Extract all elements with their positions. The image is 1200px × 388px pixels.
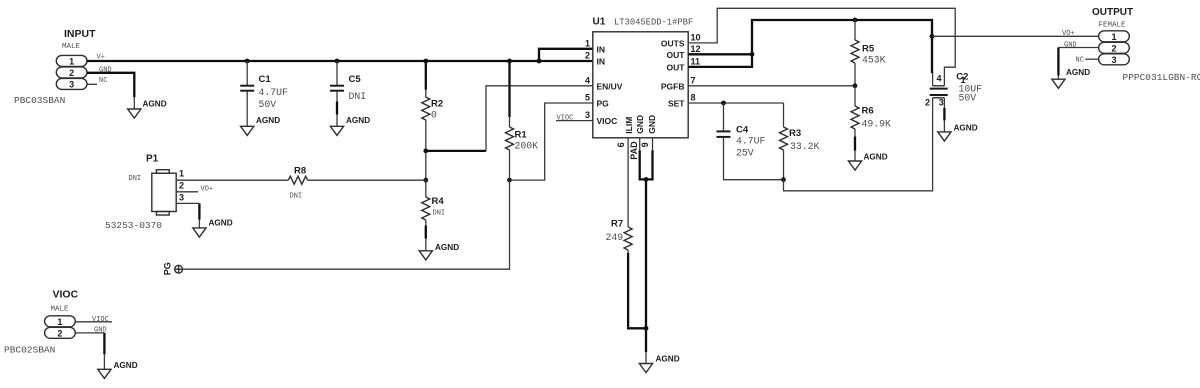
svg-text:AGND: AGND <box>256 116 280 125</box>
svg-text:C1: C1 <box>259 74 272 85</box>
net label GND <box>99 67 112 75</box>
svg-text:4.7UF: 4.7UF <box>259 87 289 98</box>
ground AGND input <box>128 100 167 119</box>
node junction R1 bottom / PG <box>507 178 512 183</box>
connector INPUT title <box>62 28 96 51</box>
svg-text:PGFB: PGFB <box>661 81 685 91</box>
resistor R6 <box>851 86 891 161</box>
svg-text:2: 2 <box>179 181 184 191</box>
connector VIOC title <box>51 289 79 314</box>
wire VO+ to output <box>932 30 1099 38</box>
svg-text:3: 3 <box>69 79 74 89</box>
connector VIOC pin boxes <box>45 316 76 339</box>
svg-text:VO+: VO+ <box>1062 30 1075 38</box>
wire OUTPUT NC stub <box>1076 56 1099 64</box>
svg-text:OUT: OUT <box>667 50 686 60</box>
svg-text:R8: R8 <box>294 166 306 177</box>
svg-text:R5: R5 <box>862 44 875 55</box>
svg-text:VIOC: VIOC <box>92 316 109 324</box>
ground AGND U1 <box>639 355 679 373</box>
svg-text:VIOC: VIOC <box>557 115 574 123</box>
svg-text:33.2K: 33.2K <box>790 141 820 152</box>
wire OUTPUT GND <box>1058 42 1098 80</box>
svg-text:1: 1 <box>69 56 74 66</box>
ground AGND output <box>1052 68 1090 88</box>
wire GND down to AGND <box>645 179 647 363</box>
svg-text:25V: 25V <box>736 147 754 158</box>
capacitor C1 <box>240 61 288 126</box>
node junction R1/rail <box>507 59 512 64</box>
svg-text:IN: IN <box>597 44 606 54</box>
svg-text:DNI: DNI <box>349 91 367 102</box>
wire OUTS net <box>688 8 955 86</box>
svg-text:3: 3 <box>1111 55 1116 65</box>
connector INPUT pin boxes <box>56 55 87 89</box>
svg-text:7: 7 <box>691 75 696 85</box>
svg-text:EN/UV: EN/UV <box>597 81 623 91</box>
svg-text:10: 10 <box>691 32 701 42</box>
svg-text:4: 4 <box>937 74 942 84</box>
node junction R5/R6/PGFB <box>853 83 858 88</box>
svg-text:DNI: DNI <box>129 175 142 183</box>
svg-text:50V: 50V <box>959 93 977 104</box>
svg-text:ILIM: ILIM <box>624 117 634 134</box>
svg-text:PAD: PAD <box>629 141 639 160</box>
wire ILIM to R7 <box>627 138 629 227</box>
svg-text:SET: SET <box>668 99 685 109</box>
ground AGND C2 <box>938 123 978 141</box>
svg-text:9: 9 <box>640 142 650 147</box>
node junction step/rail <box>537 59 542 64</box>
svg-text:AGND: AGND <box>1066 68 1090 77</box>
svg-text:P1: P1 <box>146 154 159 165</box>
svg-text:R1: R1 <box>515 130 528 141</box>
svg-text:NC: NC <box>99 77 107 85</box>
wire input NC stub <box>87 83 97 85</box>
svg-text:R2: R2 <box>431 99 443 110</box>
svg-text:AGND: AGND <box>209 219 233 228</box>
svg-text:2: 2 <box>585 51 590 61</box>
svg-text:LT3045EDD-1#PBF: LT3045EDD-1#PBF <box>614 18 693 28</box>
svg-text:2: 2 <box>57 328 62 338</box>
node junction VO+ branch <box>930 34 935 39</box>
wire EN/UV net <box>426 86 593 151</box>
node PG flag <box>163 262 183 275</box>
svg-text:MALE: MALE <box>51 306 70 314</box>
svg-text:6: 6 <box>616 142 626 147</box>
node junction R2 bottom / EN wire <box>423 149 428 154</box>
ground AGND VIOC <box>98 361 138 378</box>
svg-text:2: 2 <box>69 68 74 78</box>
wire V+ main input rail <box>87 60 593 62</box>
svg-text:0: 0 <box>431 110 437 121</box>
svg-text:U1: U1 <box>593 17 606 28</box>
U1 left pin numbers <box>585 38 590 120</box>
node junction R4/R8 <box>423 178 428 183</box>
wire P1 pin2 stub VO+ <box>176 186 213 194</box>
wire OUT net thick <box>688 20 932 73</box>
svg-text:PG: PG <box>163 262 173 275</box>
ground AGND C1 <box>241 116 281 135</box>
svg-text:DNI: DNI <box>433 210 446 218</box>
svg-text:FEMALE: FEMALE <box>1099 22 1127 30</box>
node junction R3/C4 bottom <box>781 177 786 182</box>
svg-text:C4: C4 <box>736 124 749 135</box>
svg-text:PBC02SBAN: PBC02SBAN <box>4 345 55 356</box>
wire R2 node down to R4 node <box>425 151 427 180</box>
svg-text:AGND: AGND <box>143 100 167 109</box>
capacitor C4 <box>717 103 784 180</box>
capacitor C2 (4-terminal) <box>925 71 982 132</box>
svg-text:VO+: VO+ <box>201 186 214 194</box>
svg-text:AGND: AGND <box>954 123 978 132</box>
node junction GND pins <box>644 177 649 182</box>
svg-text:3: 3 <box>585 110 590 120</box>
svg-text:R7: R7 <box>611 219 623 230</box>
svg-text:MALE: MALE <box>62 43 81 51</box>
resistor R5 <box>851 20 886 86</box>
connector P1 <box>105 154 184 232</box>
svg-text:4: 4 <box>585 75 590 85</box>
svg-text:OUTPUT: OUTPUT <box>1092 7 1133 18</box>
svg-text:453K: 453K <box>862 55 886 66</box>
svg-text:3: 3 <box>939 97 944 107</box>
svg-text:VIOC: VIOC <box>53 289 79 301</box>
svg-text:AGND: AGND <box>656 355 680 364</box>
svg-text:4.7UF: 4.7UF <box>736 135 766 146</box>
svg-text:AGND: AGND <box>864 153 888 162</box>
svg-text:2: 2 <box>1111 43 1116 53</box>
node junction R5 top <box>853 18 858 23</box>
node junction R7 bottom <box>644 326 649 331</box>
svg-text:R4: R4 <box>432 196 445 207</box>
svg-text:200K: 200K <box>515 141 539 152</box>
connector OUTPUT pin boxes <box>1099 31 1130 65</box>
resistor R1 <box>506 61 539 180</box>
svg-text:12: 12 <box>691 44 701 54</box>
wire U1 GND/PAD pins <box>640 138 653 180</box>
svg-text:AGND: AGND <box>346 116 370 125</box>
U1 right pin names <box>661 38 685 108</box>
svg-text:1: 1 <box>57 317 62 327</box>
svg-text:NC: NC <box>1076 56 1084 64</box>
svg-text:PBC03SBAN: PBC03SBAN <box>14 95 65 106</box>
resistor R2 <box>422 61 443 151</box>
resistor R4 <box>422 180 445 251</box>
svg-text:VIOC: VIOC <box>597 116 618 126</box>
ground AGND R6 <box>848 153 887 171</box>
U1 right pin numbers <box>691 32 701 102</box>
wire step to U1 pin1 <box>539 49 593 61</box>
node junction OUT pins <box>750 52 755 57</box>
op-amp U1 outline <box>593 17 694 138</box>
part number PBC03SBAN <box>14 95 65 106</box>
svg-text:R3: R3 <box>789 128 801 139</box>
svg-text:GND: GND <box>1064 42 1077 50</box>
svg-text:DNI: DNI <box>290 193 303 201</box>
ground AGND P1 <box>193 219 233 238</box>
node junction C1/rail <box>245 59 250 64</box>
svg-text:53253-0370: 53253-0370 <box>105 220 162 231</box>
net label NC <box>99 77 107 85</box>
wire SET net <box>688 102 783 104</box>
svg-text:AGND: AGND <box>114 361 138 370</box>
svg-text:C5: C5 <box>349 74 362 85</box>
ground AGND R4 <box>419 243 459 260</box>
svg-text:GND: GND <box>647 115 657 134</box>
wire PGFB net <box>688 85 855 87</box>
wire SET kelvin to C2 pin2 <box>784 98 933 191</box>
U1 left pin names <box>597 44 623 126</box>
wire input GND <box>87 73 134 109</box>
svg-text:AGND: AGND <box>435 243 459 252</box>
svg-text:PG: PG <box>597 99 610 109</box>
ground AGND C5 <box>330 116 370 135</box>
wire VIOC net stub <box>75 316 112 324</box>
svg-text:8: 8 <box>691 93 696 103</box>
node junction C5/rail <box>335 59 340 64</box>
svg-text:1: 1 <box>585 38 590 48</box>
svg-text:1: 1 <box>179 169 184 179</box>
svg-text:11: 11 <box>691 56 701 66</box>
svg-text:INPUT: INPUT <box>64 28 96 40</box>
net label VIOC at U1 pin3 <box>556 115 593 123</box>
node junction R2/rail <box>423 59 428 64</box>
svg-text:GND: GND <box>635 115 645 134</box>
svg-text:R6: R6 <box>862 106 874 117</box>
part number PBC02SBAN <box>4 345 55 356</box>
svg-text:2: 2 <box>925 97 930 107</box>
svg-text:IN: IN <box>597 57 606 67</box>
svg-text:49.9K: 49.9K <box>862 119 892 130</box>
resistor R3 <box>780 103 820 180</box>
part number PPPC031LGBN-RC <box>1123 72 1200 83</box>
svg-text:249: 249 <box>606 232 624 243</box>
svg-text:OUTS: OUTS <box>661 38 685 48</box>
wire VIOC GND <box>75 326 106 369</box>
svg-text:50V: 50V <box>259 99 277 110</box>
U1 bottom pin numbers rotated <box>616 141 650 160</box>
svg-text:5: 5 <box>585 93 590 103</box>
net label V+ <box>97 54 105 62</box>
connector OUTPUT title <box>1092 7 1133 30</box>
svg-text:OUT: OUT <box>667 62 686 72</box>
capacitor C5 <box>330 61 366 126</box>
svg-text:PPPC031LGBN-RC: PPPC031LGBN-RC <box>1123 72 1200 83</box>
resistor R7 <box>606 219 647 329</box>
svg-text:3: 3 <box>179 193 184 203</box>
svg-text:1: 1 <box>1111 32 1116 42</box>
wire PG net <box>183 103 593 269</box>
wire P1 pin3 to ground <box>176 203 199 228</box>
U1 bottom pin names rotated <box>624 115 657 134</box>
node junction C4 top <box>721 101 726 106</box>
resistor R8 <box>176 166 426 201</box>
